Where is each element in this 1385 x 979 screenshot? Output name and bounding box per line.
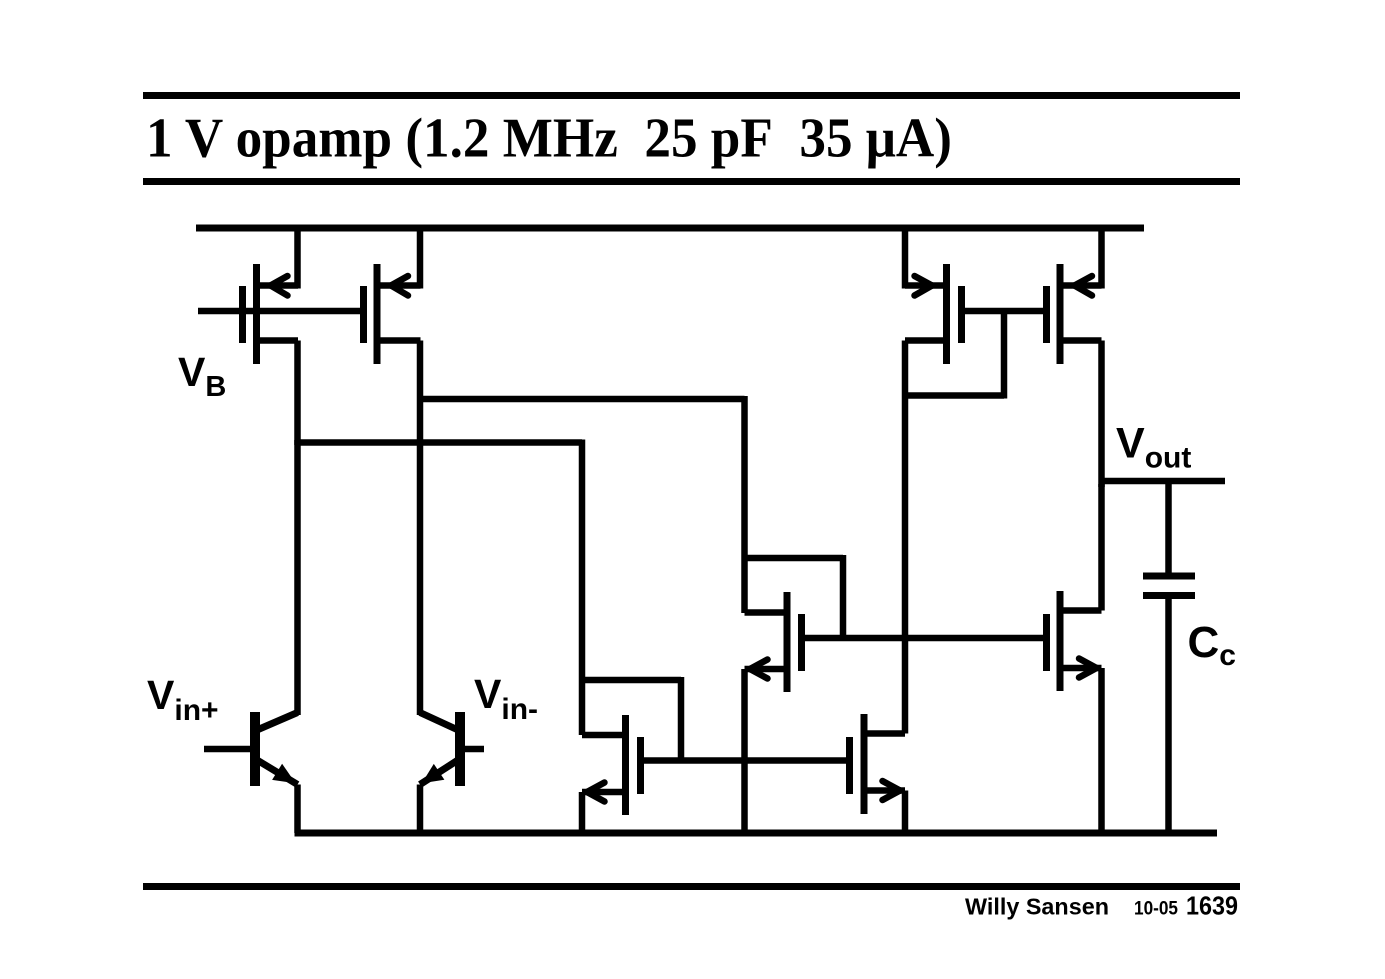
transistor M6 (NMOS diode-connected) — [745, 592, 806, 692]
wire M3 diode link vertical to gate line — [1001, 311, 1008, 399]
wire M4 source to VDD — [1098, 225, 1105, 289]
wire Q1 emitter to ground — [294, 785, 301, 834]
svg-text:VB: VB — [178, 349, 226, 403]
wire M8 source to ground — [1098, 668, 1105, 833]
wire M2 drain down to node B — [417, 341, 424, 716]
wire M7 source to ground — [902, 791, 909, 834]
wire M6 M8 gate line — [802, 635, 1047, 642]
wire M4 drain down to Vout node — [1098, 341, 1105, 488]
transistor M2 (PMOS) — [360, 264, 421, 364]
wire capacitor bottom to ground — [1165, 598, 1172, 833]
wire node A to Q1 collector — [294, 440, 301, 715]
svg-text:Vin-: Vin- — [474, 671, 538, 726]
svg-text:10-05: 10-05 — [1134, 899, 1178, 920]
transistor M5 (NMOS diode-connected) — [582, 715, 644, 815]
wire M5 drain column vertical — [579, 440, 586, 736]
title top rule — [143, 92, 1240, 99]
transistor M3 (PMOS mirror diode-connected) — [905, 264, 965, 364]
svg-text:Cc: Cc — [1188, 618, 1236, 672]
wire M8 drain up to Vout node — [1098, 484, 1105, 611]
wire M1 source to VDD — [294, 225, 301, 289]
wire M1 drain down to node A — [294, 341, 301, 446]
capacitor Cc bottom plate — [1143, 592, 1195, 599]
capacitor Cc top plate — [1143, 573, 1195, 580]
wire Q2 emitter to ground — [417, 785, 424, 834]
wire M5 diode link horizontal — [582, 677, 681, 684]
transistor M8 (NMOS output) — [1043, 591, 1102, 691]
svg-text:1639: 1639 — [1186, 891, 1238, 921]
wire M3 M4 gate line — [962, 308, 1047, 315]
wire Vout to capacitor top — [1165, 481, 1172, 573]
wire Vout node line — [1102, 478, 1226, 485]
VDD supply rail (top) — [196, 225, 1144, 232]
wire M6 source to ground — [741, 669, 748, 833]
title bottom rule — [143, 178, 1240, 185]
wire VB gate line to M1 M2 gates — [198, 308, 364, 315]
wire M2 source to VDD — [417, 225, 424, 289]
wire node A horizontal to M5 drain column — [295, 439, 583, 446]
transistor M7 (NMOS mirror) — [846, 714, 905, 814]
wire M5 diode link vertical to gate — [678, 677, 685, 761]
wire M3 diode link horizontal — [905, 392, 1004, 399]
VSS ground rail (bottom) — [295, 830, 1218, 837]
footer rule — [143, 883, 1240, 890]
svg-text:1 V opamp (1.2 MHz 25 pF 35: 1 V opamp (1.2 MHz 25 pF 35 μA) — [146, 108, 952, 170]
wire M5 M7 gate line — [641, 757, 850, 764]
transistor Q2 (NPN input Vin-) — [420, 712, 484, 786]
transistor M4 (PMOS output mirror) — [1043, 264, 1102, 364]
svg-text:Vout: Vout — [1116, 420, 1191, 475]
wire M6 drain column vertical — [741, 396, 748, 613]
wire node B horizontal to M6 drain column — [417, 396, 745, 403]
wire M3 source to VDD — [902, 225, 909, 289]
wire M6 diode link vertical to gate line — [840, 555, 847, 638]
wire M5 source to ground — [579, 792, 586, 833]
wire M3 drain column to M7 drain — [902, 341, 909, 734]
svg-text:Willy Sansen: Willy Sansen — [965, 894, 1109, 920]
transistor M1 (PMOS) — [239, 264, 298, 364]
transistor Q1 (NPN input Vin+) — [204, 712, 298, 786]
svg-text:Vin+: Vin+ — [147, 672, 219, 727]
wire M6 diode link horizontal — [745, 555, 844, 562]
